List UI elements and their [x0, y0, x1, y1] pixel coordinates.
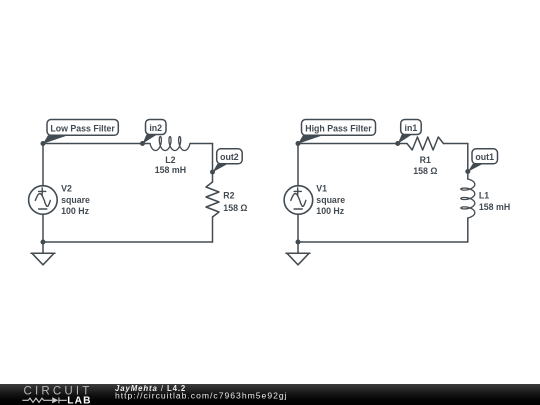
svg-text:V2: V2 [61, 184, 72, 194]
wire right bottom [298, 241, 468, 243]
logo diode [52, 397, 58, 403]
ground right [286, 242, 310, 265]
svg-text:R2: R2 [223, 190, 234, 200]
resistor R1 [407, 137, 444, 150]
svg-text:square: square [61, 195, 90, 205]
wire left bottom [43, 241, 213, 243]
svg-text:LAB: LAB [67, 396, 92, 405]
callout Low Pass Filter [43, 120, 118, 144]
svg-text:V1: V1 [316, 184, 327, 194]
ground left [31, 242, 55, 265]
svg-text:158 Ω: 158 Ω [223, 203, 247, 213]
node in1 dot [395, 141, 400, 146]
svg-text:100 Hz: 100 Hz [316, 206, 344, 216]
voltage source V2 [29, 186, 58, 215]
svg-text:out1: out1 [475, 152, 494, 162]
wire left side [42, 144, 44, 243]
svg-text:158 Ω: 158 Ω [413, 166, 437, 176]
svg-text:L1: L1 [479, 190, 489, 200]
svg-text:R1: R1 [420, 155, 431, 165]
junction left TL [41, 141, 46, 146]
node out2 dot [210, 170, 215, 175]
wire right-circuit left side [297, 144, 299, 243]
inductor L1 [461, 179, 475, 218]
wire right-circuit right side [467, 144, 469, 243]
inductor L2 [150, 137, 190, 151]
wire right top [298, 143, 468, 145]
svg-text:158 mH: 158 mH [479, 202, 510, 212]
callout High Pass Filter [298, 120, 376, 144]
node out1 dot [465, 169, 470, 174]
wire right side of left circuit [212, 144, 214, 243]
svg-text:L2: L2 [165, 155, 175, 165]
resistor R2 [206, 182, 219, 217]
svg-text:square: square [316, 195, 345, 205]
junction left BL [41, 240, 46, 245]
svg-text:High Pass Filter: High Pass Filter [305, 123, 372, 133]
logo wire+resistor [22, 397, 67, 403]
callout in1 [398, 120, 422, 144]
callout out2 [213, 149, 243, 173]
callout out1 [468, 149, 498, 172]
svg-text:in1: in1 [405, 123, 418, 133]
junction right TL [296, 141, 301, 146]
svg-text:http://circuitlab.com/c7963hm5: http://circuitlab.com/c7963hm5e92gj [115, 391, 288, 401]
svg-text:100 Hz: 100 Hz [61, 206, 89, 216]
callout in2 [143, 120, 167, 144]
junction right BL [296, 240, 301, 245]
wire left top [43, 143, 213, 145]
svg-text:in2: in2 [149, 123, 162, 133]
svg-text:out2: out2 [220, 152, 239, 162]
node in2 dot [140, 141, 145, 146]
voltage source V1 [284, 186, 313, 215]
svg-text:158 mH: 158 mH [155, 165, 186, 175]
svg-text:Low Pass Filter: Low Pass Filter [50, 123, 115, 133]
